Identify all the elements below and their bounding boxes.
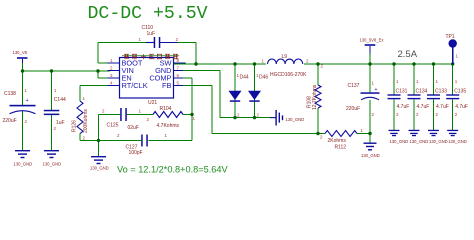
svg-text:U21: U21 xyxy=(148,100,157,106)
svg-text:1uF: 1uF xyxy=(147,31,156,37)
svg-text:2Kohms: 2Kohms xyxy=(328,138,347,144)
svg-text:1uF: 1uF xyxy=(56,120,65,126)
svg-text:Vo = 12.1/2*0.8+0.8=5.64V: Vo = 12.1/2*0.8+0.8=5.64V xyxy=(117,164,228,174)
svg-text:130_GND: 130_GND xyxy=(90,165,109,170)
svg-text:130_GND: 130_GND xyxy=(410,139,429,144)
svg-text:C144: C144 xyxy=(54,97,66,103)
svg-text:D44: D44 xyxy=(240,74,249,80)
svg-text:C125: C125 xyxy=(107,122,119,128)
svg-text:200Kohms: 200Kohms xyxy=(83,109,89,133)
svg-text:12.7Kohms: 12.7Kohms xyxy=(312,84,318,110)
svg-text:130_GND: 130_GND xyxy=(448,139,467,144)
svg-text:D46: D46 xyxy=(259,74,268,80)
svg-text:4.7uF: 4.7uF xyxy=(397,104,410,110)
svg-text:4.7uF: 4.7uF xyxy=(455,104,468,110)
svg-text:FB: FB xyxy=(162,81,172,90)
svg-text:C137: C137 xyxy=(348,83,360,89)
svg-text:4.7Kohms: 4.7Kohms xyxy=(157,123,180,129)
svg-text:130_GND: 130_GND xyxy=(286,117,305,122)
svg-text:C133: C133 xyxy=(435,89,447,95)
svg-text:DC-DC +5.5V: DC-DC +5.5V xyxy=(88,4,208,24)
svg-text:02uF: 02uF xyxy=(128,125,139,131)
svg-text:220uF: 220uF xyxy=(3,118,17,124)
svg-text:220uF: 220uF xyxy=(346,106,360,112)
svg-text:2.5A: 2.5A xyxy=(398,49,418,60)
svg-text:130_GND: 130_GND xyxy=(361,153,380,158)
svg-text:130_5V8_Ex: 130_5V8_Ex xyxy=(360,37,385,42)
svg-text:100pF: 100pF xyxy=(129,150,143,156)
svg-text:130_GND: 130_GND xyxy=(14,161,33,166)
svg-text:4.7uF: 4.7uF xyxy=(417,104,430,110)
svg-text:130_V8: 130_V8 xyxy=(13,50,28,55)
svg-text:4.7uF: 4.7uF xyxy=(436,104,449,110)
svg-text:130_GND: 130_GND xyxy=(43,161,62,166)
svg-text:R104: R104 xyxy=(160,106,172,112)
svg-text:C131: C131 xyxy=(396,89,408,95)
svg-text:TP1: TP1 xyxy=(446,34,455,40)
svg-text:130_GND: 130_GND xyxy=(429,139,448,144)
svg-text:R126: R126 xyxy=(72,120,78,132)
svg-text:RT/CLK: RT/CLK xyxy=(122,81,148,90)
svg-text:+: + xyxy=(375,87,378,93)
svg-text:130_GND: 130_GND xyxy=(390,139,409,144)
svg-text:C135: C135 xyxy=(454,89,466,95)
svg-text:L9: L9 xyxy=(282,54,288,60)
svg-text:C134: C134 xyxy=(416,89,428,95)
svg-text:C138: C138 xyxy=(4,91,16,97)
svg-text:+: + xyxy=(26,98,29,104)
svg-text:R112: R112 xyxy=(335,144,347,150)
svg-text:HGCD106-270K: HGCD106-270K xyxy=(270,72,307,78)
